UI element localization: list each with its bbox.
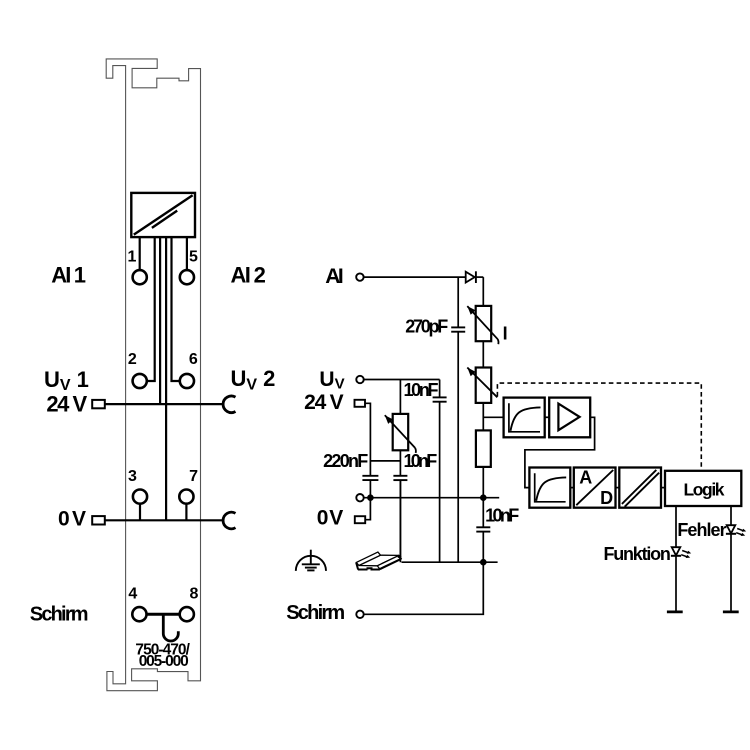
terminal circle pin 2 bbox=[133, 374, 147, 388]
svg-text:5: 5 bbox=[189, 248, 198, 265]
svg-text:005-000: 005-000 bbox=[139, 653, 189, 670]
svg-text:0 V: 0 V bbox=[317, 507, 344, 530]
capacitor C4 10nF at UV bbox=[439, 380, 441, 563]
wire main vertical bbox=[482, 277, 484, 498]
svg-text:A: A bbox=[579, 468, 592, 488]
terminal circle pin 7 bbox=[179, 490, 193, 504]
wire Schirm bbox=[364, 562, 483, 614]
24V socket crescent bbox=[223, 396, 235, 413]
node 0V terminal bbox=[356, 494, 363, 501]
wire pin1 bbox=[139, 237, 141, 271]
diode D1 bbox=[466, 272, 475, 283]
shield hook bbox=[163, 614, 178, 641]
wire shield rail bbox=[402, 561, 498, 563]
filter block F2 bbox=[529, 468, 570, 508]
junction dot 24V/0V bbox=[367, 494, 374, 501]
ground bar Fehler bbox=[723, 611, 739, 614]
wire pin5 bbox=[186, 237, 188, 271]
svg-text:10nF: 10nF bbox=[485, 505, 519, 525]
wire Logik to Fehler LED bbox=[730, 506, 732, 525]
wire iso-Logik bbox=[661, 487, 665, 489]
svg-text:270pF: 270pF bbox=[405, 316, 448, 336]
svg-text:AI 2: AI 2 bbox=[231, 263, 266, 288]
svg-text:UV 2: UV 2 bbox=[231, 366, 276, 393]
svg-text:UV: UV bbox=[319, 368, 344, 393]
wire 0V rail bbox=[364, 497, 499, 499]
svg-text:AI: AI bbox=[325, 265, 343, 288]
svg-text:7: 7 bbox=[189, 468, 198, 485]
svg-text:Schirm: Schirm bbox=[286, 602, 345, 624]
wire 24V feed bbox=[159, 237, 161, 404]
junction dot main/0V bbox=[480, 494, 487, 501]
terminal circle pin 6 bbox=[180, 374, 194, 388]
wire pin2 bbox=[147, 237, 155, 381]
svg-text:10nF: 10nF bbox=[404, 380, 439, 400]
ground bar Funktion bbox=[667, 611, 683, 614]
wire AI horizontal bbox=[364, 276, 466, 278]
0V plug square schematic bbox=[355, 516, 365, 523]
terminal circle pin 8 bbox=[180, 607, 194, 621]
Logik block U4 bbox=[665, 471, 741, 506]
24V plug square bbox=[92, 400, 105, 408]
wire T to filter1 bbox=[483, 416, 503, 418]
capacitor C1 270pF branch bbox=[457, 277, 459, 562]
wire to DIN rail bbox=[399, 480, 401, 556]
terminal circle pin 4 bbox=[132, 607, 146, 621]
svg-text:24 V: 24 V bbox=[46, 392, 87, 417]
wire diode to main node bbox=[476, 276, 483, 278]
wire 0V square to rail bbox=[365, 498, 370, 520]
svg-text:D: D bbox=[600, 488, 613, 508]
resistor R1 bbox=[476, 430, 491, 467]
svg-text:3: 3 bbox=[128, 468, 137, 485]
wire pin6 bbox=[172, 237, 180, 381]
stem pin3 to 0V bbox=[139, 504, 141, 521]
wire amp to filter2 bbox=[525, 417, 595, 487]
24V rail line bbox=[105, 403, 224, 405]
capacitor C5 10nF to shield bbox=[482, 498, 484, 563]
svg-text:10nF: 10nF bbox=[404, 451, 438, 471]
svg-text:8: 8 bbox=[190, 585, 199, 602]
transformer T1 (isolation converter box) bbox=[131, 193, 195, 237]
wire Funktion LED to rail bbox=[675, 556, 677, 612]
wire 24V to 220nF bbox=[365, 403, 370, 497]
svg-text:4: 4 bbox=[128, 586, 137, 603]
wire Fehler LED to rail bbox=[730, 534, 732, 612]
svg-text:6: 6 bbox=[189, 351, 198, 368]
wire 0V feed bbox=[165, 237, 167, 520]
wire filter2-AD bbox=[570, 487, 574, 489]
terminal circle pin 5 bbox=[180, 270, 194, 284]
wire AD-iso bbox=[616, 487, 620, 489]
svg-text:24 V: 24 V bbox=[304, 391, 344, 414]
svg-text:I: I bbox=[503, 323, 508, 343]
wire Logik to Funktion LED bbox=[675, 506, 677, 547]
LED Funktion bbox=[672, 547, 681, 555]
LED Fehler bbox=[727, 525, 736, 533]
svg-text:0 V: 0 V bbox=[58, 507, 86, 530]
junction dot shield bbox=[480, 559, 487, 566]
amplifier block U1 bbox=[549, 398, 590, 438]
DIN rail clamp symbol bbox=[356, 552, 401, 569]
svg-text:AI 1: AI 1 bbox=[51, 263, 86, 288]
node Schirm terminal bbox=[356, 611, 363, 618]
svg-text:Fehler: Fehler bbox=[677, 520, 726, 540]
0V plug square bbox=[92, 516, 105, 524]
terminal block module outline bbox=[106, 59, 200, 691]
earth symbol bbox=[296, 550, 326, 571]
terminal circle pin 3 bbox=[133, 490, 147, 504]
capacitor C3 10nF under varistor RV3 bbox=[399, 450, 401, 562]
node 24V terminal bbox=[355, 400, 366, 407]
svg-text:2: 2 bbox=[128, 351, 137, 368]
wire filter1-amp bbox=[545, 416, 550, 418]
dashed control line to Logik bbox=[497, 383, 701, 470]
svg-text:Funktion: Funktion bbox=[604, 544, 671, 564]
svg-text:Logik: Logik bbox=[684, 479, 725, 499]
svg-text:1: 1 bbox=[127, 248, 136, 265]
filter block F1 bbox=[504, 398, 545, 438]
varistor RV2 bbox=[476, 368, 492, 403]
svg-text:220nF: 220nF bbox=[323, 451, 368, 471]
capacitor C2 220nF bbox=[362, 475, 378, 477]
svg-text:Schirm: Schirm bbox=[30, 603, 89, 625]
node AI terminal bbox=[356, 273, 363, 280]
stem pin7 to 0V bbox=[185, 504, 187, 521]
shield link wire pins 4-8 bbox=[147, 613, 180, 616]
wire UV horizontal bbox=[364, 379, 440, 381]
terminal circle pin 1 bbox=[133, 270, 147, 284]
A/D converter block U2 bbox=[574, 468, 616, 508]
varistor RV3 branch bbox=[399, 380, 401, 414]
0V rail line bbox=[105, 519, 224, 521]
node UV terminal bbox=[356, 376, 363, 383]
0V socket crescent bbox=[223, 512, 235, 529]
wire 220nF link line bbox=[370, 460, 400, 462]
svg-text:UV 1: UV 1 bbox=[44, 367, 89, 394]
varistor RV1 bbox=[476, 306, 492, 341]
galvanic isolation block U3 bbox=[619, 468, 661, 508]
